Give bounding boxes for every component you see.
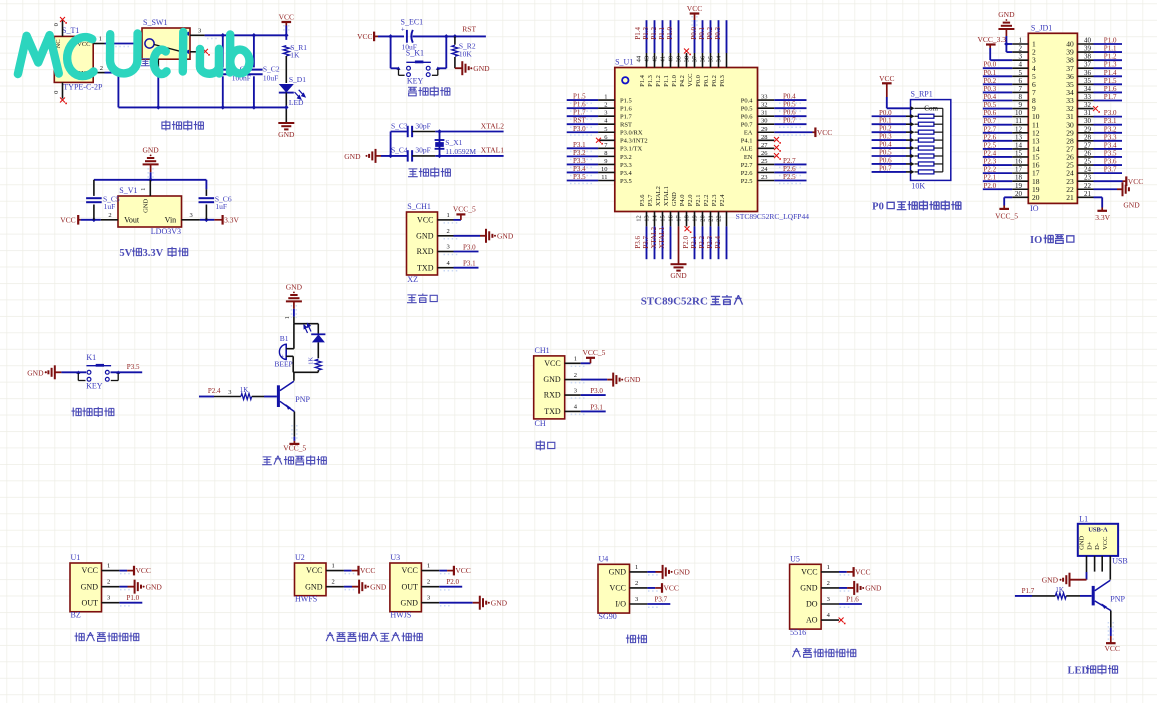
wire cap column vertical bbox=[390, 132, 392, 156]
svg-text:GND: GND bbox=[674, 568, 691, 577]
svg-text:XTAL1: XTAL1 bbox=[663, 186, 670, 206]
svg-text:35: 35 bbox=[708, 56, 715, 63]
svg-text:3: 3 bbox=[190, 212, 193, 219]
svg-text:2: 2 bbox=[574, 372, 577, 379]
svg-text:K1: K1 bbox=[86, 353, 96, 362]
svg-text:P3.0: P3.0 bbox=[573, 125, 586, 133]
svg-text:P0.4: P0.4 bbox=[741, 98, 753, 105]
svg-text:XTAL2: XTAL2 bbox=[481, 122, 504, 131]
SW1 bottom pin to rail bbox=[157, 59, 159, 74]
svg-text:P0.0: P0.0 bbox=[695, 75, 702, 87]
ground bbox=[612, 373, 614, 387]
svg-text:P0.6: P0.6 bbox=[783, 109, 796, 117]
svg-text:GND: GND bbox=[278, 130, 295, 139]
svg-text:GND: GND bbox=[491, 598, 508, 607]
svg-text:5: 5 bbox=[1019, 69, 1023, 77]
switch K1 KEY bbox=[397, 67, 401, 70]
svg-text:1: 1 bbox=[107, 563, 110, 570]
svg-text:AO: AO bbox=[806, 616, 818, 625]
svg-text:1: 1 bbox=[140, 188, 147, 191]
caption 红外避障模块 bbox=[75, 633, 85, 642]
svg-text:P2.1: P2.1 bbox=[984, 174, 997, 182]
no-connect X pin 6 bbox=[596, 138, 601, 143]
svg-text:30: 30 bbox=[761, 118, 768, 125]
svg-text:S_V1: S_V1 bbox=[119, 186, 137, 195]
svg-text:S_D1: S_D1 bbox=[289, 75, 306, 84]
svg-text:RST: RST bbox=[620, 122, 632, 129]
svg-text:VCC: VCC bbox=[136, 566, 151, 575]
wire gnd to top rail bbox=[150, 172, 152, 180]
svg-text:VCC: VCC bbox=[306, 566, 322, 575]
transistor Q2 PNP bbox=[1092, 586, 1095, 606]
junction bbox=[1004, 42, 1009, 47]
wire net P3.4 jd1r bbox=[1094, 148, 1123, 150]
svg-text:STC89C52RC_LQFP44: STC89C52RC_LQFP44 bbox=[736, 212, 810, 221]
svg-text:1: 1 bbox=[427, 563, 430, 570]
wire net P1.3 jd1r bbox=[1094, 67, 1123, 69]
power VCC EA bbox=[813, 131, 816, 133]
svg-text:S_U1: S_U1 bbox=[615, 57, 633, 66]
svg-text:CH: CH bbox=[535, 419, 546, 428]
svg-text:P0.1: P0.1 bbox=[984, 69, 997, 77]
svg-text:VCC: VCC bbox=[455, 566, 470, 575]
svg-text:P3.6: P3.6 bbox=[634, 236, 642, 249]
no-connect X pin 28 bbox=[774, 137, 779, 142]
ground alarm bbox=[293, 292, 295, 294]
junction bbox=[284, 105, 289, 110]
svg-text:P0.5: P0.5 bbox=[741, 106, 753, 113]
wire net P1.7 jd1r bbox=[1094, 99, 1123, 101]
svg-text:P2.6: P2.6 bbox=[984, 133, 997, 141]
power VCC_5 bbox=[581, 362, 591, 364]
svg-text:28: 28 bbox=[1084, 133, 1092, 141]
caption 复位电路 bbox=[408, 87, 417, 96]
wire vcc U5 bbox=[839, 571, 847, 573]
svg-text:P1.5: P1.5 bbox=[620, 98, 632, 105]
svg-text:S_K1: S_K1 bbox=[406, 49, 424, 58]
LED D2 alarm bbox=[317, 324, 319, 334]
svg-text:KEY: KEY bbox=[86, 382, 103, 391]
svg-text:15: 15 bbox=[660, 215, 667, 222]
wire vcc U3 bbox=[439, 570, 447, 572]
svg-text:P4.3/INT2: P4.3/INT2 bbox=[620, 138, 648, 145]
svg-text:P3.5: P3.5 bbox=[1104, 149, 1117, 157]
wire net P1.2 jd1r bbox=[1094, 59, 1123, 61]
svg-text:P2.0: P2.0 bbox=[682, 236, 690, 249]
wire net P2.5 bbox=[774, 180, 806, 182]
svg-text:2: 2 bbox=[827, 580, 830, 587]
wire net P2.7 bbox=[774, 163, 806, 165]
wire GND pin2 bbox=[581, 379, 608, 381]
LED D2 arrows bbox=[304, 324, 311, 333]
svg-text:RXD: RXD bbox=[544, 391, 561, 400]
svg-text:LED: LED bbox=[289, 98, 304, 107]
svg-text:6: 6 bbox=[1019, 77, 1023, 85]
wire RXD bbox=[581, 394, 606, 396]
svg-text:P3.0: P3.0 bbox=[1104, 109, 1117, 117]
svg-text:P1.4: P1.4 bbox=[639, 74, 646, 86]
svg-text:1: 1 bbox=[99, 36, 102, 43]
power VCC U3 bbox=[453, 566, 455, 576]
capacitor C1 100nF bbox=[222, 35, 224, 67]
svg-text:33: 33 bbox=[1084, 93, 1092, 101]
svg-text:21: 21 bbox=[1084, 190, 1092, 198]
junction bbox=[284, 33, 289, 38]
svg-text:XTAL1: XTAL1 bbox=[481, 146, 504, 155]
svg-text:VCC: VCC bbox=[401, 566, 417, 575]
svg-text:5V: 5V bbox=[119, 248, 132, 259]
ground JD1 top bbox=[1006, 19, 1008, 21]
pin 2 of T1 bbox=[93, 72, 104, 74]
svg-text:P1.7: P1.7 bbox=[573, 109, 586, 117]
pin 3 of SW1 bbox=[190, 34, 205, 36]
svg-text:TXD: TXD bbox=[544, 407, 561, 416]
svg-text:P0.4: P0.4 bbox=[984, 93, 997, 101]
wire K1 to P3.5 bbox=[111, 371, 143, 373]
svg-text:VCC: VCC bbox=[357, 32, 372, 41]
svg-text:VCC: VCC bbox=[82, 566, 98, 575]
svg-text:RST: RST bbox=[573, 117, 587, 125]
svg-text:18: 18 bbox=[1015, 174, 1023, 182]
svg-text:26: 26 bbox=[761, 150, 768, 157]
svg-text:VCC: VCC bbox=[801, 568, 817, 577]
svg-text:P1.7: P1.7 bbox=[620, 114, 632, 121]
wire buzzer bottom bbox=[292, 356, 294, 372]
svg-text:DO: DO bbox=[806, 600, 818, 609]
wire net P2.3 bbox=[718, 226, 720, 259]
wire net P1.0 U1 bbox=[119, 602, 142, 604]
wire net P1.6 bbox=[567, 107, 598, 109]
wire net P1.2 bbox=[662, 20, 664, 53]
wire VCC top bbox=[694, 14, 696, 21]
svg-text:10uF: 10uF bbox=[263, 74, 278, 83]
wire RXD bbox=[454, 251, 479, 253]
svg-text:P0: P0 bbox=[872, 202, 884, 213]
wire net P0.4 rp1 bbox=[872, 147, 906, 149]
svg-text:4: 4 bbox=[1019, 61, 1023, 69]
svg-text:33: 33 bbox=[761, 94, 768, 101]
svg-text:3: 3 bbox=[1019, 53, 1023, 61]
wire net P3.2 bbox=[567, 155, 598, 157]
svg-text:24: 24 bbox=[761, 166, 768, 173]
svg-text:P0.2: P0.2 bbox=[984, 77, 997, 85]
svg-text:3: 3 bbox=[228, 389, 231, 396]
svg-text:VCC: VCC bbox=[855, 568, 870, 577]
svg-text:EN: EN bbox=[744, 154, 753, 161]
svg-text:9: 9 bbox=[604, 158, 607, 165]
svg-text:P2.3: P2.3 bbox=[984, 158, 997, 166]
wire net P3.7 jd1r bbox=[1094, 172, 1123, 174]
wire net P1.7 bbox=[567, 115, 598, 117]
resistor network RP1 box bbox=[911, 100, 951, 181]
wire gnd U5 bbox=[839, 587, 847, 589]
svg-text:P1.3: P1.3 bbox=[647, 75, 654, 87]
wire vcc U2 bbox=[344, 570, 352, 572]
svg-text:P3.0: P3.0 bbox=[590, 387, 603, 395]
svg-text:VCC: VCC bbox=[817, 128, 832, 137]
capacitor C4 30pF bbox=[407, 150, 409, 161]
switch SW1 bbox=[142, 28, 190, 59]
svg-text:P3.3: P3.3 bbox=[1104, 133, 1117, 141]
module U2 HWFS bbox=[295, 563, 327, 596]
power VCC chip top bbox=[690, 12, 700, 14]
module U3 HWJS bbox=[390, 563, 422, 612]
no-connect X pin 17 bbox=[685, 226, 690, 231]
no-connect X pin 26 bbox=[774, 153, 779, 158]
svg-text:1K: 1K bbox=[1055, 586, 1064, 594]
wire net RST bbox=[567, 123, 598, 125]
junction bbox=[156, 105, 161, 110]
svg-text:+: + bbox=[401, 26, 405, 34]
wire net P1.1 jd1r bbox=[1094, 51, 1123, 53]
svg-text:10K: 10K bbox=[459, 50, 473, 59]
wire net P3.6 jd1r bbox=[1094, 164, 1123, 166]
svg-text:GND: GND bbox=[624, 375, 641, 384]
svg-text:P3.2: P3.2 bbox=[1104, 125, 1117, 133]
svg-text:12: 12 bbox=[636, 215, 643, 222]
svg-text:S_C4: S_C4 bbox=[391, 146, 408, 155]
svg-text:P3.0: P3.0 bbox=[463, 244, 476, 252]
svg-text:VCC: VCC bbox=[687, 4, 702, 13]
svg-text:42: 42 bbox=[652, 56, 659, 63]
no-connect X U5 pin 4 bbox=[839, 618, 844, 623]
svg-text:17: 17 bbox=[676, 214, 683, 221]
svg-text:ALE: ALE bbox=[740, 146, 753, 153]
RP1 resistor 6 bbox=[911, 154, 915, 158]
resistor R1 1K bbox=[283, 46, 289, 56]
junction bbox=[444, 34, 449, 39]
capacitor EC1 10uF polarized bbox=[406, 30, 408, 43]
no-connect X pin 27 bbox=[774, 145, 779, 150]
svg-text:2: 2 bbox=[604, 102, 607, 109]
wire net P1.5 jd1r bbox=[1094, 83, 1123, 85]
wire down to buzzer bbox=[293, 324, 295, 349]
wire net P2.0 U3 bbox=[439, 586, 462, 588]
svg-text:3: 3 bbox=[107, 595, 110, 602]
svg-text:3.3V: 3.3V bbox=[142, 248, 163, 259]
wire R5 to base bbox=[1066, 595, 1080, 597]
wire net P0.5 rp1 bbox=[872, 155, 906, 157]
wire net P0.1 bbox=[710, 20, 712, 53]
svg-text:VCC: VCC bbox=[279, 13, 294, 22]
switch K1 key circuit bbox=[76, 371, 80, 374]
svg-text:VCC_3.3: VCC_3.3 bbox=[978, 35, 1007, 44]
wire net P3.1 jd1r bbox=[1094, 124, 1123, 126]
wire net P2.0 bbox=[694, 226, 696, 259]
svg-text:P2.0: P2.0 bbox=[984, 182, 997, 190]
svg-text:P1.2: P1.2 bbox=[650, 27, 658, 40]
svg-text:P0.2: P0.2 bbox=[879, 125, 892, 133]
RP1 common bus bbox=[942, 108, 944, 172]
capacitor C3 30pF bbox=[407, 126, 409, 137]
svg-text:S_EC1: S_EC1 bbox=[401, 18, 424, 27]
power VCC_5 alarm bbox=[289, 443, 299, 445]
svg-text:1: 1 bbox=[447, 212, 450, 219]
IC U1 STC89C52RC bbox=[615, 68, 758, 212]
svg-text:P4.2: P4.2 bbox=[679, 75, 686, 87]
ground JD1 right bbox=[1122, 182, 1124, 196]
svg-text:25: 25 bbox=[761, 158, 768, 165]
svg-text:37: 37 bbox=[1084, 61, 1092, 69]
wire net P3.0 jd1r bbox=[1094, 116, 1123, 118]
wire net P0.4 jd1 bbox=[983, 99, 1012, 101]
wire net P3.1 bbox=[567, 147, 598, 149]
svg-text:VCC: VCC bbox=[360, 566, 375, 575]
svg-text:P2.7: P2.7 bbox=[783, 157, 796, 165]
svg-text:P2.1: P2.1 bbox=[690, 236, 698, 249]
svg-text:P0.0: P0.0 bbox=[984, 61, 997, 69]
svg-text:GND: GND bbox=[497, 231, 514, 240]
svg-text:VCC: VCC bbox=[417, 216, 433, 225]
wire EA to VCC bbox=[774, 131, 812, 133]
capacitor C2 10uF bbox=[253, 35, 255, 67]
svg-text:U4: U4 bbox=[599, 554, 609, 563]
svg-text:P1.0: P1.0 bbox=[671, 75, 678, 87]
svg-text:19: 19 bbox=[1015, 182, 1023, 190]
svg-text:P1.0: P1.0 bbox=[1104, 37, 1117, 45]
svg-text:22: 22 bbox=[1084, 182, 1092, 190]
wire vcc U1 bbox=[119, 570, 127, 572]
svg-text:31: 31 bbox=[1084, 109, 1092, 117]
wire net P3.3 bbox=[567, 163, 598, 165]
ground U5 bbox=[853, 581, 855, 595]
wire net P2.1 bbox=[702, 226, 704, 259]
svg-text:P3.1: P3.1 bbox=[573, 141, 586, 149]
svg-text:30pF: 30pF bbox=[415, 122, 430, 131]
svg-text:GND: GND bbox=[286, 282, 303, 291]
wire vcc33 to pin3 bbox=[989, 48, 991, 60]
svg-text:21: 21 bbox=[1066, 193, 1074, 202]
svg-text:P0.7: P0.7 bbox=[879, 164, 892, 172]
connector S_CH1 XZ bbox=[407, 212, 438, 275]
svg-text:36: 36 bbox=[700, 55, 707, 62]
wire net P3.2 jd1r bbox=[1094, 132, 1123, 134]
wire net P1.6 U5 bbox=[839, 603, 862, 605]
wire net P2.4 bbox=[726, 226, 728, 259]
wire net P0.1 rp1 bbox=[872, 123, 906, 125]
svg-text:P3.1: P3.1 bbox=[590, 403, 603, 411]
svg-text:3: 3 bbox=[635, 596, 638, 603]
ground U4 bbox=[662, 565, 664, 579]
wire net P0.0 bbox=[702, 20, 704, 53]
wire pin23 to VCC bbox=[1094, 180, 1123, 182]
USB D+ pin bbox=[1094, 556, 1096, 572]
caption 声光报警电路 bbox=[262, 457, 272, 465]
svg-text:GND: GND bbox=[473, 64, 490, 73]
bottom rail wire bbox=[118, 106, 286, 108]
svg-text:41: 41 bbox=[660, 56, 667, 63]
svg-text:P3.1: P3.1 bbox=[463, 260, 476, 268]
wire K1 right up to RST node bbox=[445, 36, 447, 68]
svg-text:P3.7: P3.7 bbox=[647, 194, 654, 206]
svg-text:2: 2 bbox=[332, 579, 335, 586]
wire net P2.2 bbox=[710, 226, 712, 259]
Q1 emitter bbox=[280, 401, 295, 411]
wire SW1 pin3 to VCC rail bbox=[205, 34, 287, 36]
svg-text:P0.7: P0.7 bbox=[984, 117, 997, 125]
svg-text:2: 2 bbox=[107, 579, 110, 586]
svg-text:P0.1: P0.1 bbox=[879, 117, 892, 125]
RP1 common row bbox=[911, 106, 915, 110]
wire net P0.4 bbox=[774, 99, 806, 101]
wire T1 pin1 to SW1 bbox=[105, 43, 143, 45]
wire gnd down bbox=[293, 309, 295, 317]
svg-text:GND: GND bbox=[416, 231, 434, 240]
svg-text:P2.4: P2.4 bbox=[719, 194, 726, 206]
SW1 moving contact bbox=[154, 45, 184, 53]
svg-text:P0.2: P0.2 bbox=[706, 27, 714, 40]
svg-text:XTAL2: XTAL2 bbox=[650, 227, 658, 249]
wire emitter down to VCC_5 bbox=[293, 412, 295, 437]
caption 光照检测模块 bbox=[793, 648, 801, 657]
svg-text:10: 10 bbox=[601, 166, 608, 173]
svg-text:PNP: PNP bbox=[295, 395, 310, 404]
svg-text:44: 44 bbox=[636, 55, 643, 62]
svg-text:1: 1 bbox=[332, 563, 335, 570]
wire net P1.1 bbox=[670, 20, 672, 53]
RP1 resistor 3 bbox=[911, 130, 915, 134]
junction bbox=[388, 154, 393, 159]
wire net P1.4 bbox=[646, 20, 648, 53]
svg-text:30: 30 bbox=[1084, 117, 1092, 125]
buzzer B1 BEEP bbox=[279, 344, 286, 359]
wire net P2.0 jd1 bbox=[983, 188, 1012, 190]
wire gnd to K1 bbox=[61, 371, 86, 373]
svg-text:8: 8 bbox=[1019, 93, 1023, 101]
svg-text:P0.6: P0.6 bbox=[741, 114, 753, 121]
svg-text:P2.2: P2.2 bbox=[703, 194, 710, 206]
svg-text:GND: GND bbox=[543, 375, 561, 384]
svg-text:+: + bbox=[281, 354, 285, 360]
svg-text:1: 1 bbox=[285, 316, 291, 319]
svg-text:P3.2: P3.2 bbox=[620, 154, 632, 161]
capacitor C6 1uF bbox=[205, 180, 207, 190]
connector L1 USB-A bbox=[1078, 524, 1118, 556]
svg-text:P1.5: P1.5 bbox=[573, 93, 586, 101]
svg-text:S_RP1: S_RP1 bbox=[911, 90, 933, 99]
svg-text:P1.4: P1.4 bbox=[1104, 69, 1117, 77]
svg-text:GND: GND bbox=[344, 152, 361, 161]
svg-text:GND: GND bbox=[998, 10, 1015, 19]
pin 2 of SW1 with X bbox=[190, 51, 203, 53]
svg-text:P0.3: P0.3 bbox=[879, 133, 892, 141]
svg-text:23: 23 bbox=[1084, 174, 1092, 182]
regulator V1 LDO3V3 bbox=[118, 196, 182, 227]
wire emitter to VCC bbox=[1110, 611, 1112, 628]
svg-text:XTAL2: XTAL2 bbox=[655, 186, 662, 206]
svg-text:GND: GND bbox=[370, 582, 387, 591]
pin1 indicator circle bbox=[622, 77, 628, 83]
wire VCC node down to K1 bbox=[390, 36, 392, 68]
RP1 resistor 1 bbox=[911, 114, 915, 118]
svg-text:P4.1: P4.1 bbox=[741, 138, 753, 145]
caption 下载口 bbox=[407, 295, 417, 303]
svg-text:OUT: OUT bbox=[401, 582, 418, 591]
svg-text:1K: 1K bbox=[308, 357, 315, 365]
wire VCC to Vout bbox=[81, 219, 101, 221]
resistor R4 1K base bbox=[241, 394, 252, 400]
svg-text:VCC_5: VCC_5 bbox=[995, 212, 1018, 221]
wire net P3.3 jd1r bbox=[1094, 140, 1123, 142]
svg-text:3.3V: 3.3V bbox=[224, 215, 239, 224]
wire net P0.6 bbox=[774, 115, 806, 117]
svg-text:CH1: CH1 bbox=[535, 346, 550, 355]
junction bbox=[221, 33, 226, 38]
pin 1 of T1 bbox=[93, 43, 104, 45]
pin 2 Vout bbox=[101, 219, 118, 221]
svg-text:GND: GND bbox=[27, 369, 44, 378]
svg-text:L1: L1 bbox=[1079, 515, 1088, 524]
